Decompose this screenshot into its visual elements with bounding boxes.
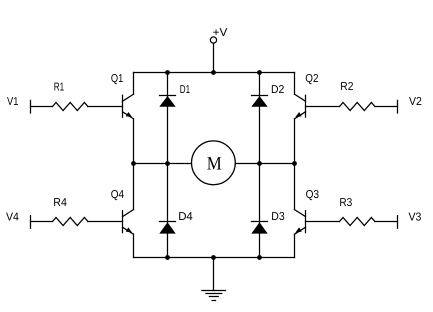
svg-text:R4: R4 [53, 197, 67, 209]
wire Q1 collector to top rail [133, 73, 135, 95]
svg-text:R3: R3 [339, 197, 352, 209]
motor M1 [192, 141, 236, 185]
wire V1 to R1 [31, 106, 53, 108]
svg-text:V2: V2 [409, 96, 422, 108]
wire Q3 base to R3 [306, 221, 340, 223]
terminal tick V2 [397, 100, 399, 113]
junction: ground / bottom rail [211, 255, 216, 260]
wire Q3 collector to motor rail [294, 164, 296, 210]
resistor R3 [340, 218, 375, 226]
wire Q4 emitter to bottom rail [133, 234, 135, 257]
diode D4 [159, 164, 175, 258]
wire Q2 base to R2 [306, 106, 340, 108]
junction: D3 / bottom rail [257, 255, 262, 260]
junction: D2 / top rail [257, 70, 262, 75]
svg-text:Q3: Q3 [306, 189, 319, 201]
svg-text:Q1: Q1 [111, 73, 123, 85]
junction: D2-D3 / motor rail [257, 161, 262, 166]
transistor Q4 [123, 210, 134, 235]
junction: Q1 emitter / motor rail [131, 161, 136, 166]
terminal tick V4 [30, 216, 32, 229]
svg-text:+V: +V [213, 27, 228, 39]
wire R1 to Q1 base [88, 106, 123, 108]
terminal tick V1 [30, 100, 32, 113]
wire R3 to V3 [375, 221, 398, 223]
svg-text:D4: D4 [178, 211, 193, 223]
svg-text:M: M [207, 154, 222, 175]
transistor Q3 [295, 210, 306, 235]
transistor Q1 [123, 94, 134, 119]
svg-text:V4: V4 [6, 212, 19, 224]
wire Q3 emitter to bottom rail [294, 234, 296, 257]
wire R4 to Q4 base [88, 221, 123, 223]
wire R2 to V2 [375, 106, 398, 108]
wire motor rail left [134, 163, 192, 165]
wire bottom rail [134, 257, 295, 259]
diode D3 [251, 164, 267, 258]
resistor R1 [53, 103, 88, 111]
wire Q2 collector to top rail [294, 73, 296, 95]
svg-text:V3: V3 [409, 212, 422, 224]
terminal tick V3 [397, 216, 399, 229]
svg-text:D3: D3 [271, 211, 284, 223]
svg-text:D1: D1 [180, 84, 190, 96]
power terminal +V [210, 37, 216, 73]
diode D2 [251, 73, 267, 164]
wire Q4 collector to motor rail [133, 164, 135, 210]
transistor Q2 [295, 94, 306, 119]
svg-text:Q2: Q2 [305, 73, 318, 85]
resistor R2 [340, 103, 375, 111]
wire Q2 emitter to motor rail [294, 119, 296, 164]
wire V4 to R4 [31, 221, 53, 223]
ground [202, 258, 226, 301]
svg-text:V1: V1 [7, 96, 18, 108]
resistor R4 [53, 218, 88, 226]
wire top rail [134, 72, 295, 74]
diode D1 [159, 73, 175, 164]
junction: Q2 emitter / motor rail [292, 161, 297, 166]
junction: D1 / top rail [165, 70, 170, 75]
junction: D1-D4 / motor rail [165, 161, 170, 166]
svg-text:R2: R2 [340, 81, 353, 93]
junction: +V / top rail [211, 70, 216, 75]
svg-text:R1: R1 [54, 82, 64, 94]
wire Q1 emitter to motor rail [133, 119, 135, 164]
svg-text:Q4: Q4 [111, 189, 125, 201]
junction: D4 / bottom rail [165, 255, 170, 260]
wire motor rail right [235, 163, 294, 165]
svg-text:D2: D2 [271, 84, 284, 96]
